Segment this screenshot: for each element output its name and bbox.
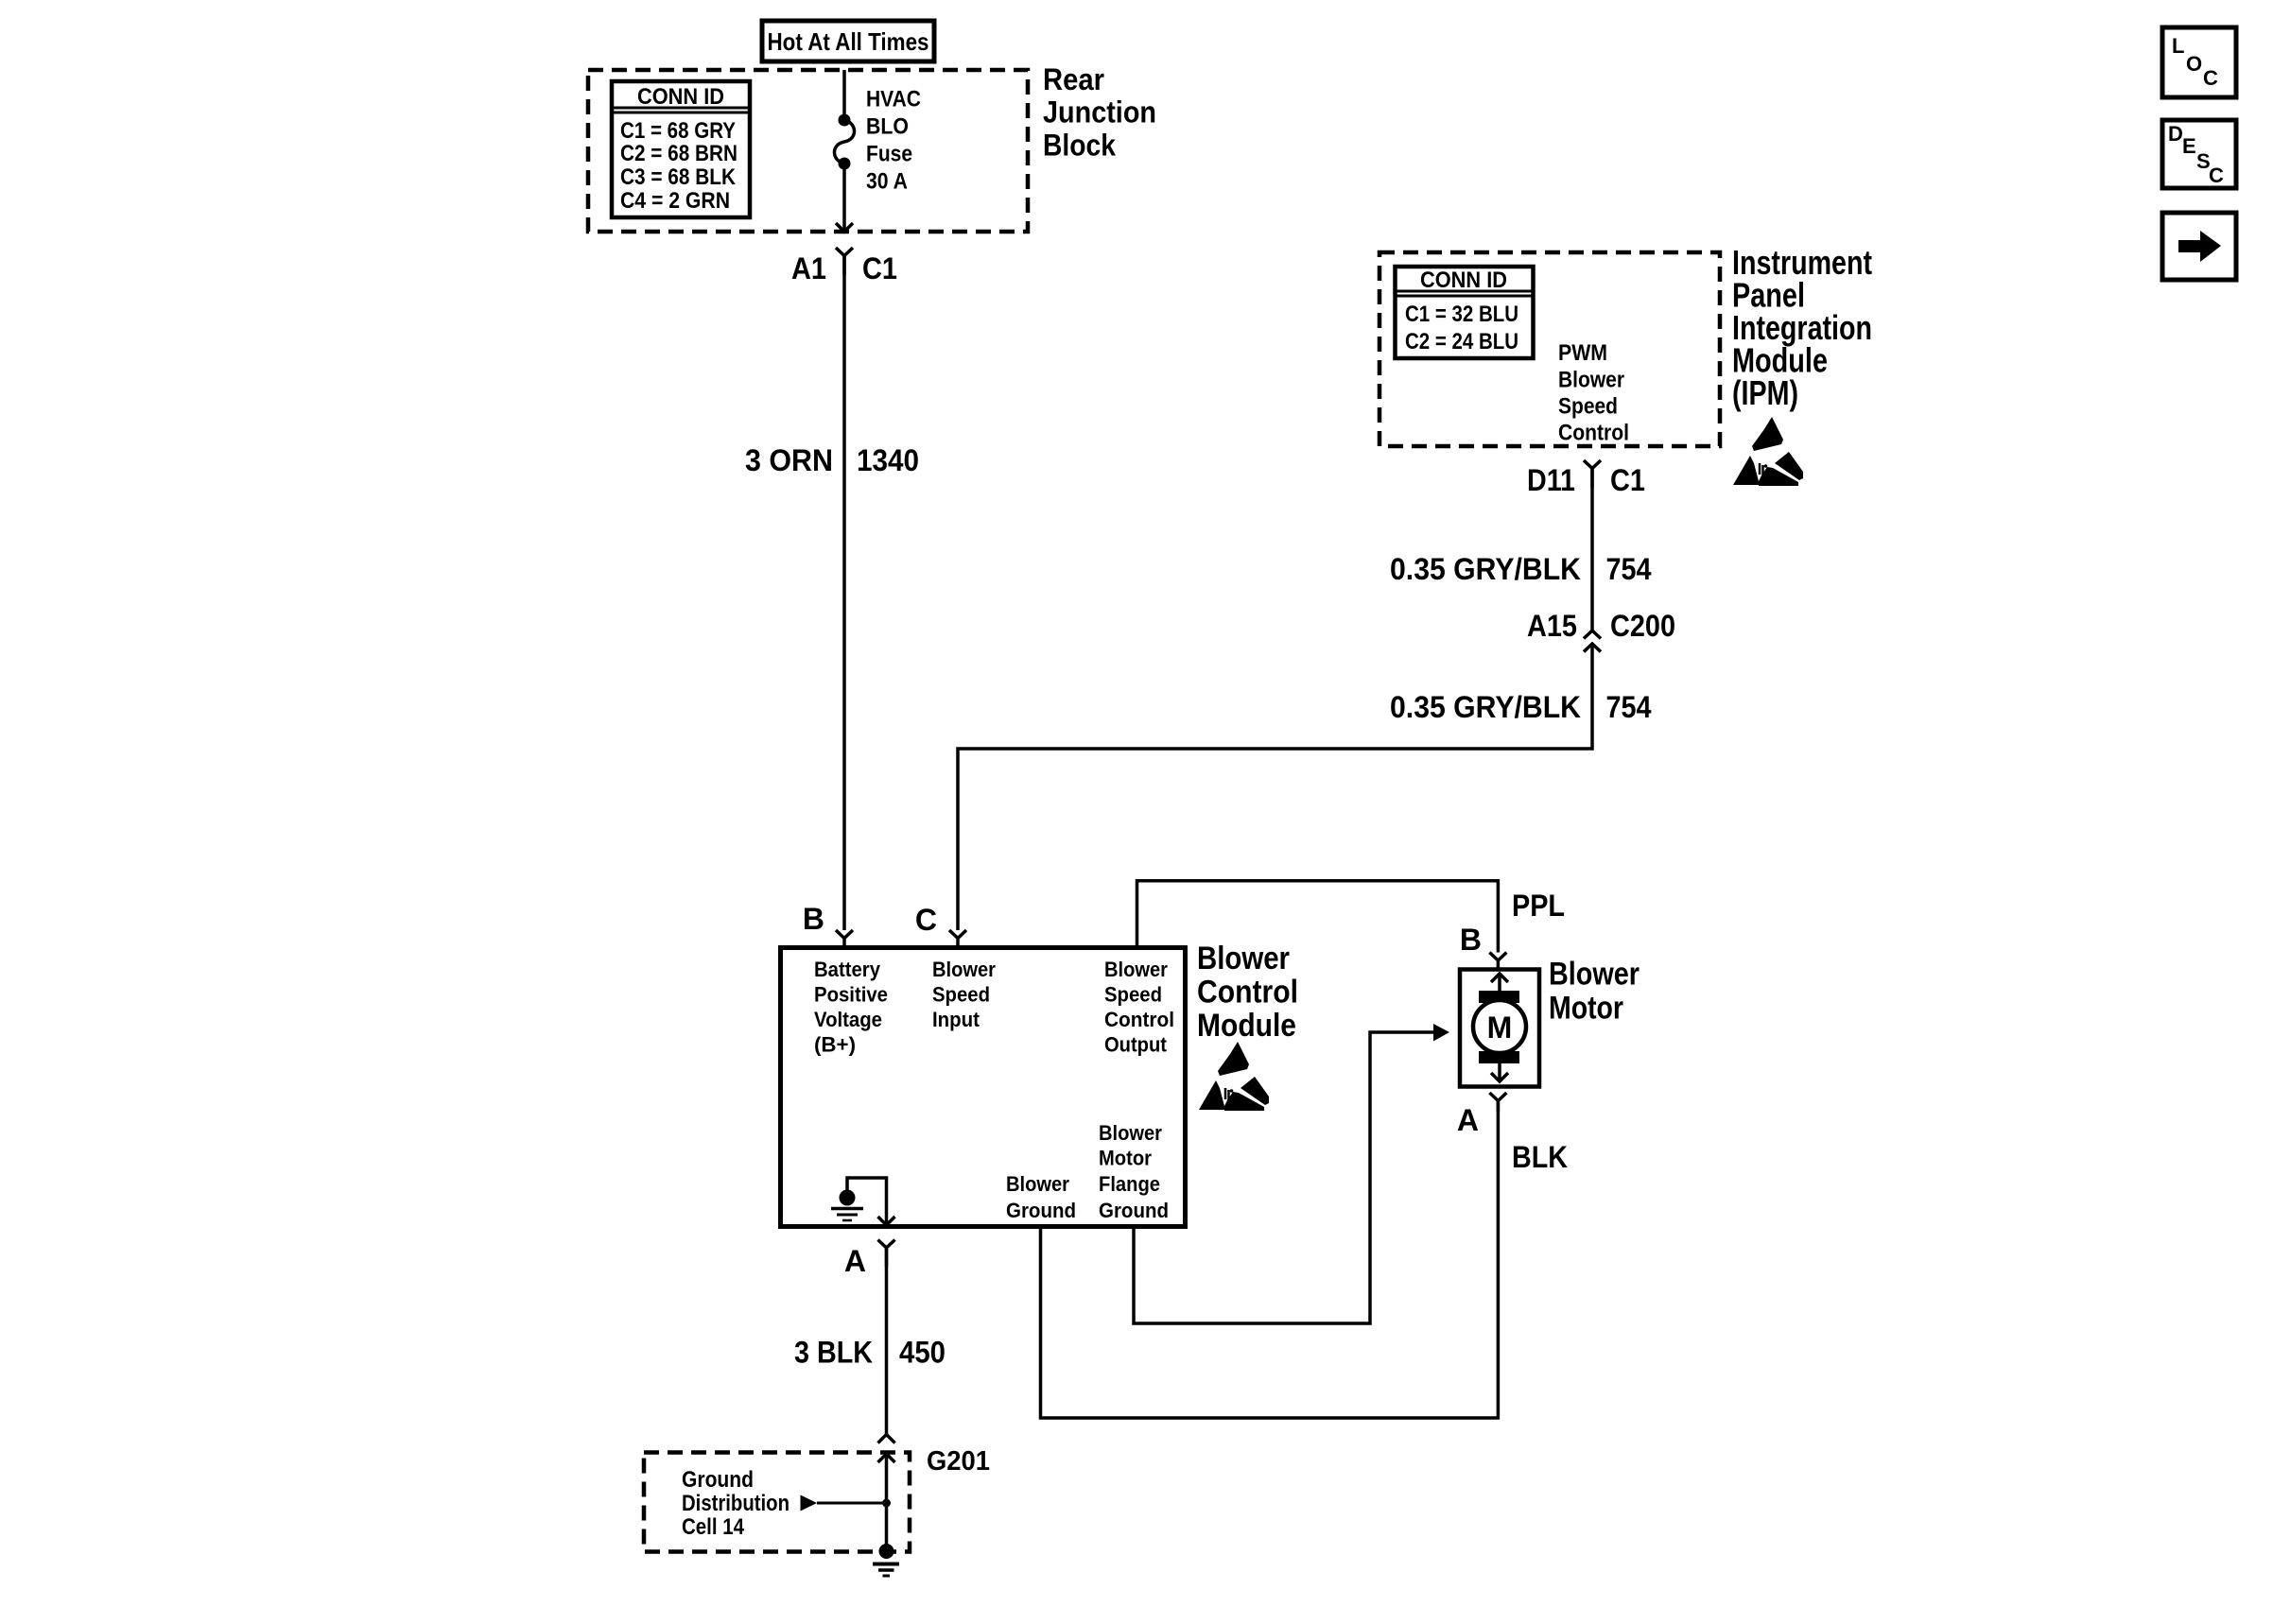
- power label: Hot At All Times: [762, 21, 934, 61]
- svg-text:A: A: [844, 1244, 866, 1278]
- svg-text:Blower: Blower: [932, 958, 996, 981]
- pin function label: Blower Speed Input: [932, 958, 996, 1031]
- svg-text:Speed: Speed: [1558, 394, 1618, 420]
- pin A fork (Blower Motor): [1489, 1093, 1506, 1112]
- wire label: 0.35 GRY/BLK 754 (upper): [1390, 552, 1652, 586]
- svg-text:Output: Output: [1104, 1033, 1167, 1057]
- ESD sensitivity symbol (Blower Control Module): [1199, 1042, 1269, 1111]
- wire: fuse output to pin A1 (arrow down): [836, 164, 853, 232]
- fuse value label: HVAC BLO Fuse 30 A: [866, 87, 921, 195]
- Blower Motor M1: [1460, 970, 1539, 1087]
- label: Rear Junction Block: [1043, 62, 1156, 163]
- svg-text:Positive: Positive: [814, 983, 888, 1007]
- svg-text:1340: 1340: [857, 443, 919, 477]
- svg-text:Battery: Battery: [814, 958, 880, 981]
- ground distribution link triangle: [801, 1495, 818, 1512]
- label: Instrument Panel Integration Module (IPM): [1732, 243, 1872, 412]
- wire: G201 internal vertical: [885, 1454, 889, 1551]
- wire: internal ground to pin A (arrow down): [847, 1178, 895, 1225]
- ground G201 symbol: [873, 1544, 899, 1576]
- chevron arrow into G201 wire: [878, 1454, 895, 1462]
- legend icon: arrow: [2162, 213, 2236, 280]
- svg-text:Ground: Ground: [1006, 1199, 1076, 1222]
- svg-text:Input: Input: [932, 1008, 980, 1031]
- svg-text:C2 = 68 BRN: C2 = 68 BRN: [620, 141, 737, 166]
- svg-text:Voltage: Voltage: [814, 1008, 882, 1031]
- ground symbol (internal, Blower Control Module): [831, 1190, 863, 1221]
- svg-text:3 ORN: 3 ORN: [745, 443, 833, 477]
- svg-text:Cell 14: Cell 14: [682, 1514, 745, 1540]
- G201 ground distribution enclosure (dashed): [644, 1453, 910, 1552]
- svg-text:Rear: Rear: [1043, 62, 1104, 96]
- svg-text:E: E: [2182, 134, 2196, 158]
- svg-text:A15: A15: [1527, 609, 1577, 643]
- svg-text:D11: D11: [1527, 463, 1575, 497]
- svg-text:0.35 GRY/BLK: 0.35 GRY/BLK: [1390, 552, 1581, 586]
- legend icon: DESC: [2162, 120, 2236, 188]
- pin function label: Blower Motor Flange Ground: [1099, 1121, 1169, 1222]
- svg-text:Blower: Blower: [1006, 1172, 1069, 1196]
- wire: flange ground link: [1134, 1032, 1433, 1323]
- svg-text:CONN ID: CONN ID: [637, 84, 724, 110]
- svg-text:754: 754: [1606, 690, 1652, 724]
- svg-text:C: C: [2209, 164, 2224, 187]
- pin B fork (Blower Motor): [1489, 953, 1506, 970]
- svg-text:CONN ID: CONN ID: [1420, 268, 1507, 293]
- Rear Junction Block enclosure (dashed): [588, 70, 1028, 232]
- svg-text:C200: C200: [1610, 609, 1675, 643]
- svg-text:C4 = 2 GRN: C4 = 2 GRN: [620, 188, 730, 214]
- junction dot: [882, 1499, 891, 1508]
- svg-text:BLO: BLO: [866, 114, 909, 140]
- svg-text:Blower: Blower: [1549, 957, 1640, 993]
- svg-text:L: L: [2172, 34, 2184, 58]
- svg-text:PPL: PPL: [1512, 889, 1565, 923]
- svg-text:Speed: Speed: [1104, 983, 1162, 1007]
- svg-text:3 BLK: 3 BLK: [794, 1336, 873, 1370]
- svg-text:B: B: [803, 902, 824, 936]
- wire: 3 BLK 450: [885, 1248, 889, 1435]
- svg-text:Distribution: Distribution: [682, 1491, 789, 1516]
- pin function label: Blower Ground: [1006, 1172, 1076, 1222]
- svg-text:(IPM): (IPM): [1732, 373, 1798, 412]
- wire: 0.35 GRY/BLK 754 (lower) to module pin C: [958, 644, 1592, 930]
- svg-text:C2 = 24 BLU: C2 = 24 BLU: [1405, 329, 1518, 354]
- svg-text:HVAC: HVAC: [866, 87, 921, 112]
- wire: motor pin A to module blower ground: [1041, 1101, 1499, 1419]
- svg-text:C1 = 68 GRY: C1 = 68 GRY: [620, 118, 736, 144]
- svg-text:Blower: Blower: [1197, 941, 1290, 976]
- wire: triangle to junction: [817, 1502, 887, 1505]
- svg-text:Motor: Motor: [1099, 1147, 1152, 1170]
- connector ID table (IPM): [1396, 267, 1534, 358]
- svg-text:PWM: PWM: [1558, 340, 1607, 366]
- legend icon: LOC: [2162, 27, 2236, 97]
- pin function label: Battery Positive Voltage (B+): [814, 958, 888, 1057]
- svg-text:C3 = 68 BLK: C3 = 68 BLK: [620, 164, 737, 190]
- wire: 0.35 GRY/BLK 754 (upper): [1590, 469, 1594, 631]
- svg-text:G201: G201: [927, 1446, 990, 1477]
- pin B fork (Blower Control Module): [836, 930, 853, 946]
- Instrument Panel Integration Module enclosure (dashed): [1379, 252, 1720, 446]
- svg-text:C: C: [2203, 66, 2218, 90]
- svg-text:Motor: Motor: [1549, 991, 1623, 1027]
- pin C fork (Blower Control Module): [949, 930, 966, 946]
- svg-text:Blower: Blower: [1558, 368, 1624, 393]
- svg-text:A1: A1: [791, 251, 826, 285]
- svg-text:30 A: 30 A: [866, 169, 908, 195]
- svg-text:450: 450: [899, 1336, 946, 1370]
- svg-text:Block: Block: [1043, 129, 1116, 163]
- svg-text:Control: Control: [1558, 421, 1629, 446]
- ESD sensitivity symbol (IPM): [1733, 417, 1803, 486]
- svg-text:C1: C1: [862, 251, 897, 285]
- svg-text:Blower: Blower: [1104, 958, 1168, 981]
- svg-text:Ground: Ground: [682, 1467, 754, 1493]
- connector ID table (Rear Junction Block): [612, 81, 750, 217]
- svg-text:Hot At All Times: Hot At All Times: [768, 27, 929, 56]
- svg-text:Control: Control: [1197, 975, 1298, 1011]
- fuse F: HVAC BLO Fuse 30 A: [834, 114, 854, 170]
- wire label: 3 BLK 450: [794, 1336, 946, 1370]
- svg-text:Flange: Flange: [1099, 1172, 1160, 1196]
- svg-text:0.35 GRY/BLK: 0.35 GRY/BLK: [1390, 690, 1581, 724]
- connector fork A1 / C1: [836, 248, 853, 275]
- svg-text:B: B: [1460, 923, 1482, 957]
- pin A fork (Blower Control Module): [878, 1240, 895, 1268]
- svg-text:A: A: [1457, 1103, 1479, 1137]
- svg-text:O: O: [2186, 52, 2202, 76]
- svg-text:C1: C1: [1610, 463, 1645, 497]
- wire label: 0.35 GRY/BLK 754 (lower): [1390, 690, 1652, 724]
- inline splice fork into G201: [878, 1435, 895, 1443]
- svg-text:D: D: [2168, 122, 2183, 146]
- connector fork D11 / C1 (IPM output): [1584, 460, 1601, 488]
- svg-text:BLK: BLK: [1512, 1140, 1568, 1174]
- wire: blower speed control output to motor pin B: [1137, 881, 1499, 953]
- svg-text:Junction: Junction: [1043, 95, 1156, 130]
- wire label: 3 ORN 1340: [745, 443, 919, 477]
- svg-text:Fuse: Fuse: [866, 142, 912, 167]
- Blower Control Module U1: [781, 948, 1186, 1227]
- svg-text:Ground: Ground: [1099, 1199, 1169, 1222]
- svg-text:Blower: Blower: [1099, 1121, 1162, 1145]
- label: Blower Control Module: [1197, 941, 1298, 1044]
- inline connector A15 / C200: [1584, 631, 1601, 652]
- svg-text:M: M: [1487, 1011, 1513, 1045]
- svg-text:(B+): (B+): [814, 1033, 856, 1057]
- wire: 3 ORN 1340: [842, 256, 846, 931]
- flange arrowhead into motor: [1433, 1024, 1449, 1042]
- svg-text:Control: Control: [1104, 1008, 1174, 1031]
- label: Blower Motor: [1549, 957, 1640, 1027]
- svg-text:Speed: Speed: [932, 983, 990, 1007]
- pin function label: Blower Speed Control Output: [1104, 958, 1174, 1057]
- svg-text:Module: Module: [1197, 1008, 1296, 1044]
- svg-text:754: 754: [1606, 552, 1652, 586]
- svg-text:C1 = 32 BLU: C1 = 32 BLU: [1405, 302, 1518, 327]
- label: Ground Distribution Cell 14: [682, 1467, 789, 1540]
- svg-text:C: C: [915, 903, 937, 937]
- wire: hot feed into fuse: [842, 70, 846, 120]
- label: PWM Blower Speed Control: [1558, 340, 1629, 446]
